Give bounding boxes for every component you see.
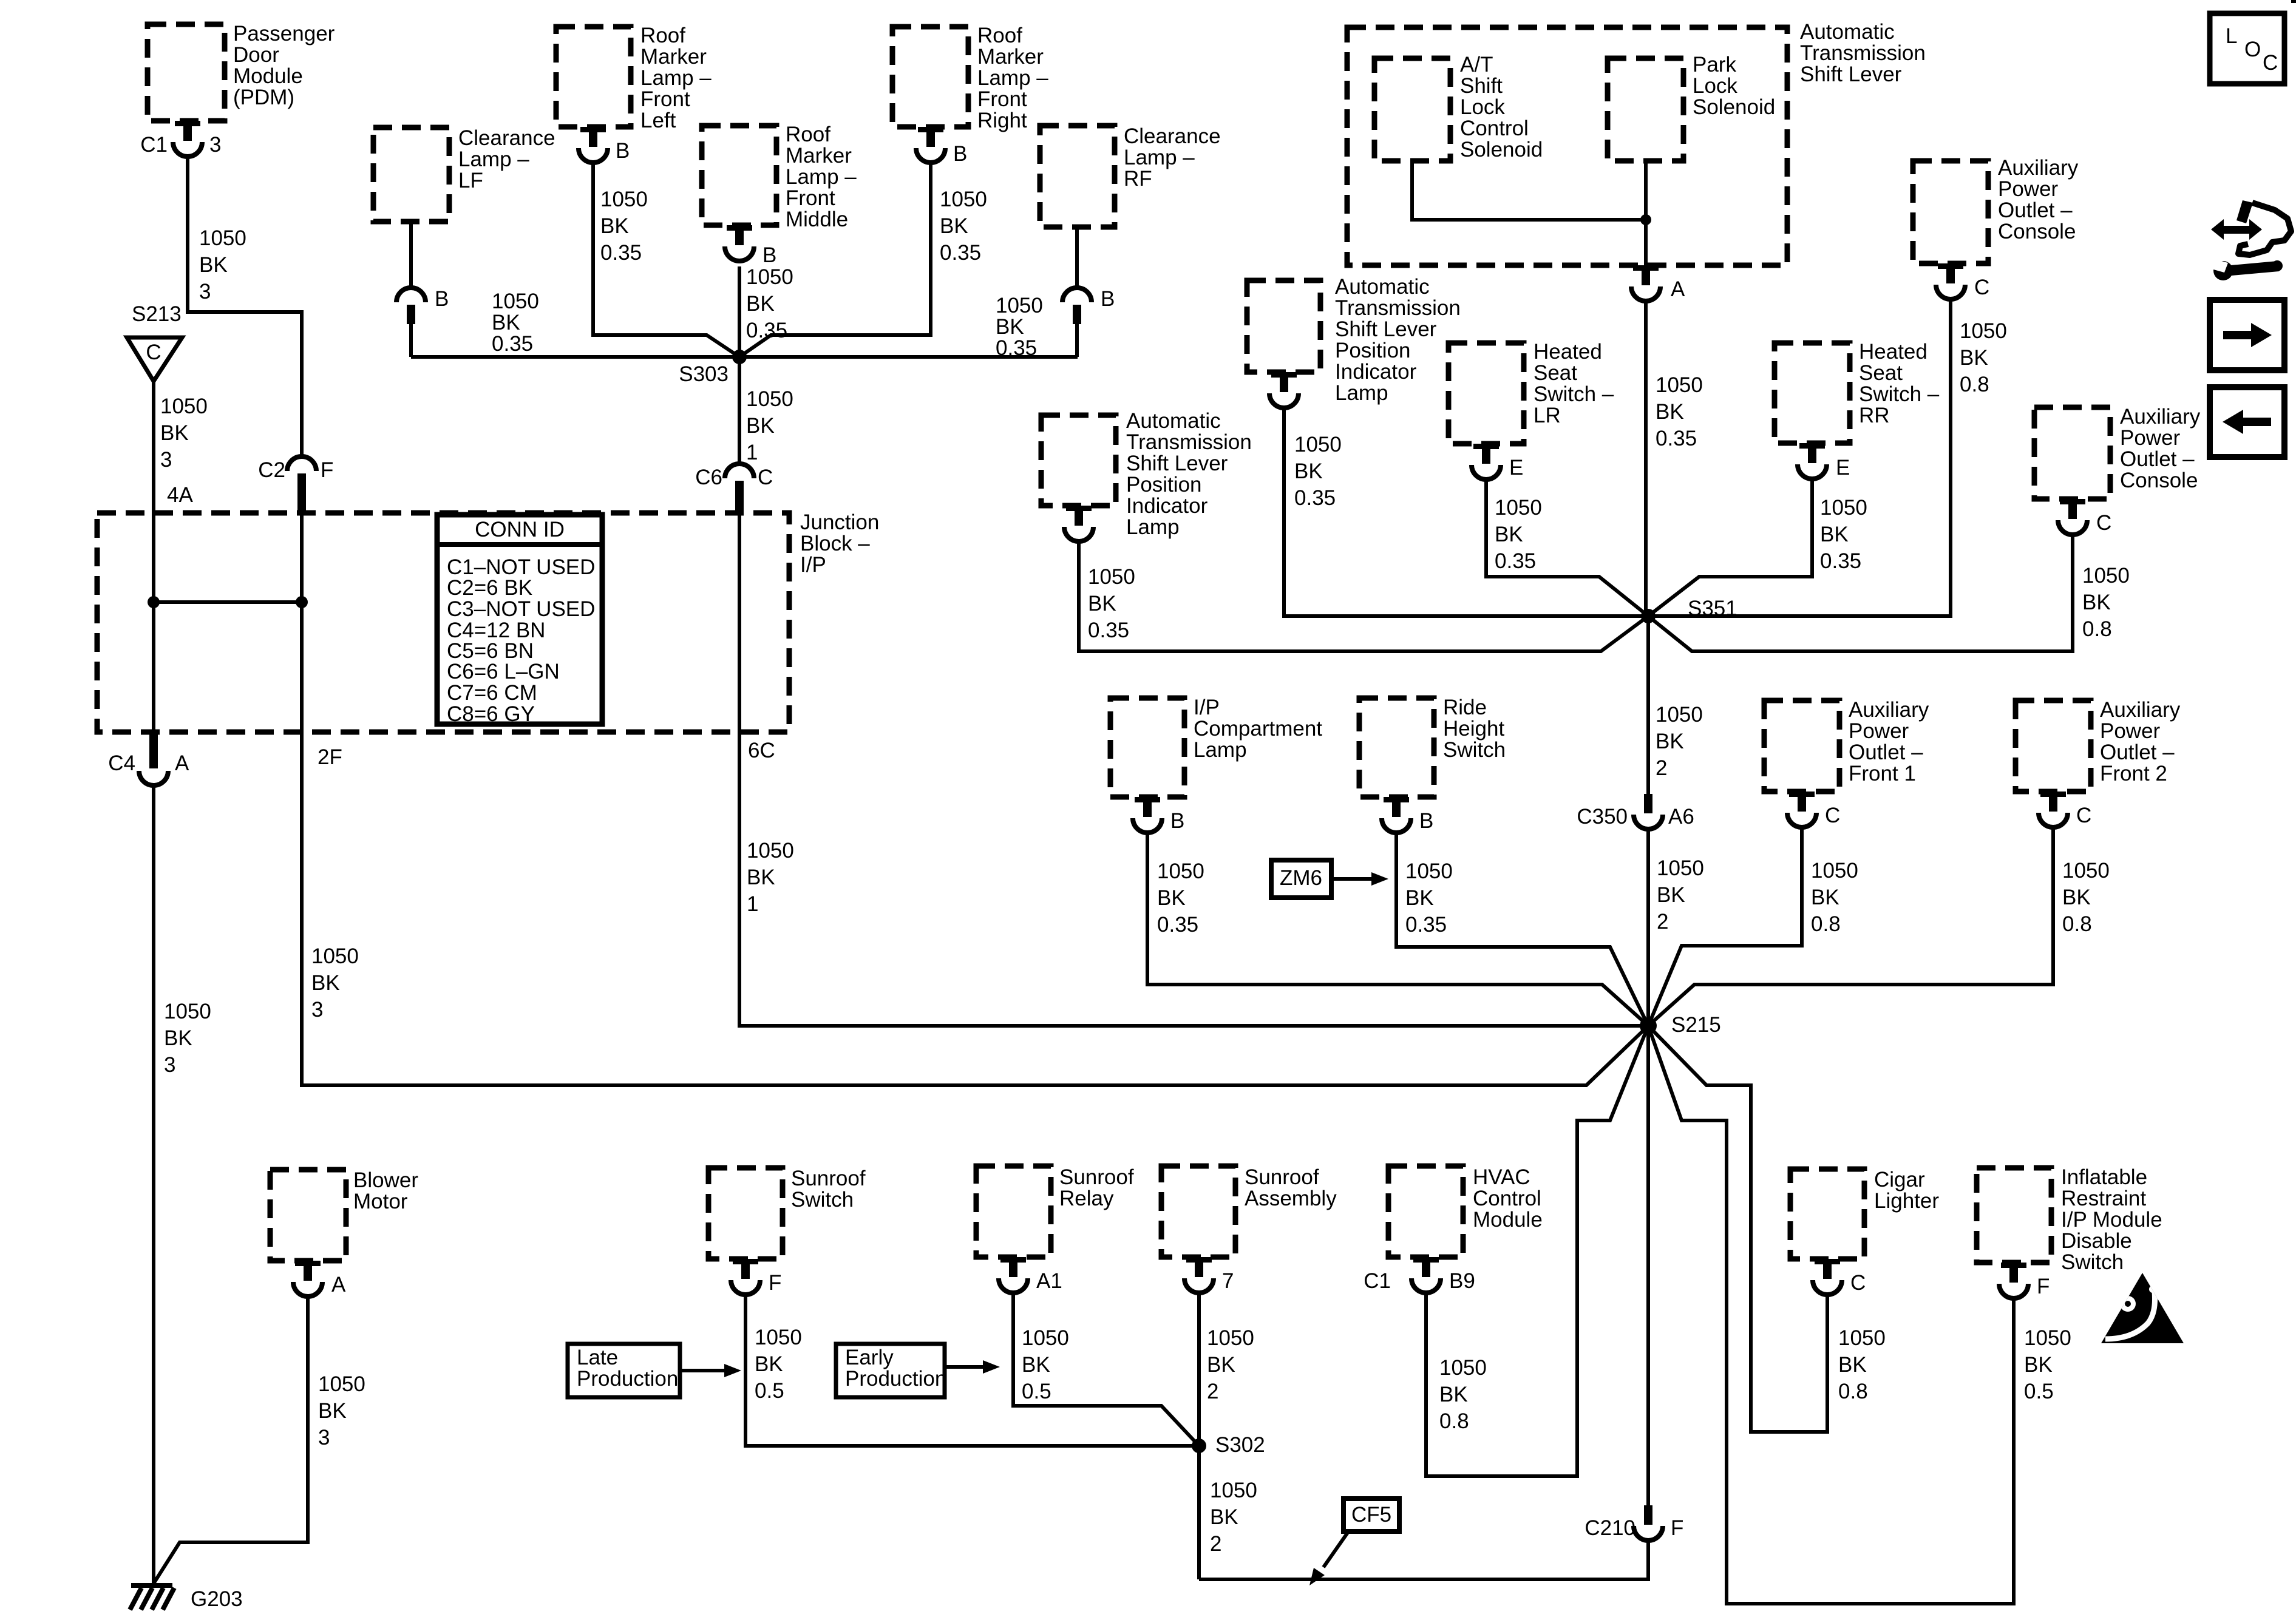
svg-text:1050: 1050 bbox=[2082, 564, 2130, 588]
svg-text:Early: Early bbox=[845, 1346, 894, 1369]
svg-text:Ride: Ride bbox=[1443, 696, 1487, 719]
svg-text:1: 1 bbox=[746, 441, 758, 464]
svg-text:1050: 1050 bbox=[1405, 859, 1453, 883]
svg-text:0.35: 0.35 bbox=[746, 319, 787, 342]
svg-text:0.35: 0.35 bbox=[996, 336, 1037, 360]
svg-text:Auxiliary: Auxiliary bbox=[1849, 698, 1929, 722]
svg-text:Heated: Heated bbox=[1859, 340, 1927, 364]
svg-text:S213: S213 bbox=[132, 302, 182, 326]
svg-text:6C: 6C bbox=[748, 739, 775, 762]
svg-text:ZM6: ZM6 bbox=[1280, 866, 1322, 890]
svg-text:Front: Front bbox=[640, 87, 690, 111]
svg-text:1050: 1050 bbox=[1656, 703, 1703, 727]
svg-text:C: C bbox=[1825, 804, 1840, 827]
svg-text:S215: S215 bbox=[1671, 1013, 1721, 1037]
svg-text:BK: BK bbox=[1657, 883, 1685, 907]
svg-text:Control: Control bbox=[1460, 117, 1529, 140]
svg-text:Automatic: Automatic bbox=[1335, 275, 1430, 299]
svg-text:0.5: 0.5 bbox=[2024, 1380, 2054, 1403]
svg-text:C: C bbox=[758, 466, 773, 489]
svg-text:Seat: Seat bbox=[1859, 361, 1903, 385]
svg-text:0.8: 0.8 bbox=[2062, 912, 2092, 936]
svg-text:1050: 1050 bbox=[164, 1000, 211, 1023]
svg-text:1050: 1050 bbox=[940, 188, 987, 211]
svg-text:3: 3 bbox=[160, 448, 172, 472]
svg-text:BK: BK bbox=[199, 253, 228, 277]
svg-text:Lamp: Lamp bbox=[1194, 738, 1247, 762]
svg-text:B: B bbox=[616, 139, 630, 163]
svg-text:Inflatable: Inflatable bbox=[2061, 1165, 2147, 1189]
svg-text:RR: RR bbox=[1859, 404, 1890, 427]
svg-text:Indicator: Indicator bbox=[1335, 360, 1417, 384]
svg-text:I/P: I/P bbox=[800, 553, 826, 577]
svg-text:BK: BK bbox=[1838, 1353, 1867, 1377]
svg-text:C8=6 GY: C8=6 GY bbox=[447, 702, 535, 726]
svg-text:BK: BK bbox=[1405, 886, 1434, 910]
svg-text:Shift Lever: Shift Lever bbox=[1126, 452, 1228, 475]
svg-text:1050: 1050 bbox=[160, 395, 208, 418]
svg-text:1050: 1050 bbox=[1157, 859, 1204, 883]
svg-text:Solenoid: Solenoid bbox=[1460, 138, 1543, 161]
svg-text:B: B bbox=[763, 243, 776, 267]
svg-text:0.35: 0.35 bbox=[492, 332, 533, 356]
svg-text:Marker: Marker bbox=[640, 45, 707, 69]
svg-text:Heated: Heated bbox=[1533, 340, 1602, 364]
svg-text:Park: Park bbox=[1693, 53, 1736, 76]
svg-text:B9: B9 bbox=[1449, 1269, 1475, 1293]
svg-text:BK: BK bbox=[755, 1352, 783, 1376]
svg-text:Outlet –: Outlet – bbox=[2120, 447, 2195, 471]
svg-text:F: F bbox=[2037, 1275, 2050, 1298]
svg-text:B: B bbox=[1101, 287, 1115, 311]
svg-text:1050: 1050 bbox=[1656, 373, 1703, 397]
svg-text:G203: G203 bbox=[191, 1587, 243, 1611]
svg-text:BK: BK bbox=[311, 971, 340, 995]
svg-text:Auxiliary: Auxiliary bbox=[2120, 405, 2201, 429]
svg-text:1050: 1050 bbox=[746, 265, 793, 289]
svg-text:2: 2 bbox=[1657, 910, 1668, 934]
svg-text:Lamp –: Lamp – bbox=[640, 66, 712, 90]
svg-text:C: C bbox=[146, 341, 161, 364]
svg-text:BK: BK bbox=[1022, 1353, 1050, 1377]
svg-text:I/P: I/P bbox=[1194, 696, 1220, 719]
svg-text:Module: Module bbox=[233, 64, 303, 88]
svg-text:C: C bbox=[1974, 276, 1989, 299]
svg-text:C3–NOT USED: C3–NOT USED bbox=[447, 597, 595, 621]
svg-text:I/P Module: I/P Module bbox=[2061, 1208, 2162, 1232]
svg-text:BK: BK bbox=[940, 214, 968, 238]
svg-text:BK: BK bbox=[160, 421, 189, 445]
svg-text:Lamp –: Lamp – bbox=[786, 165, 857, 189]
svg-text:C: C bbox=[2263, 51, 2278, 75]
svg-text:Middle: Middle bbox=[786, 208, 848, 231]
svg-text:BK: BK bbox=[318, 1399, 347, 1423]
svg-text:Motor: Motor bbox=[353, 1190, 408, 1213]
svg-text:C350: C350 bbox=[1577, 805, 1628, 829]
svg-text:Power: Power bbox=[1998, 177, 2059, 201]
svg-text:Shift: Shift bbox=[1460, 74, 1503, 98]
svg-text:BK: BK bbox=[600, 214, 629, 238]
svg-text:0.35: 0.35 bbox=[940, 241, 981, 265]
svg-text:A: A bbox=[331, 1273, 346, 1297]
svg-text:Production: Production bbox=[845, 1367, 946, 1391]
svg-text:S302: S302 bbox=[1215, 1433, 1265, 1457]
svg-text:Solenoid: Solenoid bbox=[1693, 95, 1775, 119]
svg-text:2F: 2F bbox=[318, 745, 342, 769]
svg-text:0.8: 0.8 bbox=[1838, 1380, 1868, 1403]
svg-text:C7=6 CM: C7=6 CM bbox=[447, 681, 537, 705]
svg-text:0.35: 0.35 bbox=[1405, 913, 1447, 937]
svg-text:Automatic: Automatic bbox=[1126, 409, 1221, 433]
svg-text:S303: S303 bbox=[679, 362, 729, 386]
svg-text:1050: 1050 bbox=[318, 1372, 365, 1396]
svg-text:Lamp –: Lamp – bbox=[977, 66, 1048, 90]
svg-text:C: C bbox=[2076, 804, 2091, 827]
svg-text:C1: C1 bbox=[1364, 1269, 1391, 1293]
svg-text:Junction: Junction bbox=[800, 510, 879, 534]
svg-text:Lamp: Lamp bbox=[1126, 515, 1180, 539]
svg-text:0.35: 0.35 bbox=[1088, 619, 1129, 642]
svg-text:C6=6 L–GN: C6=6 L–GN bbox=[447, 660, 560, 683]
svg-text:Door: Door bbox=[233, 43, 279, 67]
svg-text:BK: BK bbox=[1656, 400, 1684, 424]
svg-text:S351: S351 bbox=[1688, 597, 1737, 620]
svg-text:Height: Height bbox=[1443, 717, 1504, 741]
svg-text:BK: BK bbox=[492, 311, 520, 334]
svg-text:1050: 1050 bbox=[1820, 496, 1867, 520]
svg-text:Production: Production bbox=[577, 1367, 678, 1391]
svg-text:F: F bbox=[1671, 1516, 1683, 1540]
svg-text:Auxiliary: Auxiliary bbox=[1998, 156, 2079, 180]
svg-text:LF: LF bbox=[458, 169, 483, 192]
svg-text:L: L bbox=[2226, 24, 2237, 48]
svg-text:Position: Position bbox=[1335, 339, 1411, 362]
svg-text:O: O bbox=[2244, 38, 2261, 61]
svg-text:1050: 1050 bbox=[996, 294, 1043, 317]
svg-text:BK: BK bbox=[2024, 1353, 2053, 1377]
svg-text:Switch: Switch bbox=[2061, 1250, 2124, 1274]
svg-text:1050: 1050 bbox=[600, 188, 648, 211]
svg-text:Transmission: Transmission bbox=[1335, 296, 1461, 320]
svg-text:0.35: 0.35 bbox=[600, 241, 642, 265]
svg-text:Indicator: Indicator bbox=[1126, 494, 1208, 518]
svg-text:3: 3 bbox=[209, 133, 221, 157]
svg-text:Automatic: Automatic bbox=[1800, 20, 1895, 44]
svg-text:0.8: 0.8 bbox=[2082, 617, 2112, 641]
svg-text:BK: BK bbox=[2082, 591, 2111, 614]
svg-text:B: B bbox=[1170, 809, 1184, 833]
svg-text:A: A bbox=[1671, 277, 1685, 301]
svg-text:1050: 1050 bbox=[746, 387, 793, 411]
svg-text:Late: Late bbox=[577, 1346, 618, 1369]
svg-text:CF5: CF5 bbox=[1351, 1503, 1391, 1527]
svg-text:Front 2: Front 2 bbox=[2100, 762, 2167, 785]
svg-text:1050: 1050 bbox=[2024, 1326, 2071, 1350]
svg-text:Disable: Disable bbox=[2061, 1229, 2132, 1253]
svg-text:1050: 1050 bbox=[1210, 1479, 1257, 1502]
svg-text:BK: BK bbox=[1820, 523, 1849, 546]
svg-text:Shift Lever: Shift Lever bbox=[1800, 63, 1902, 86]
svg-text:A1: A1 bbox=[1036, 1269, 1062, 1293]
svg-text:Front: Front bbox=[786, 186, 835, 210]
svg-text:BK: BK bbox=[747, 866, 775, 889]
svg-text:1050: 1050 bbox=[1811, 859, 1858, 883]
svg-text:Control: Control bbox=[1473, 1187, 1541, 1210]
svg-text:1050: 1050 bbox=[1207, 1326, 1254, 1350]
svg-text:Transmission: Transmission bbox=[1126, 430, 1252, 454]
svg-text:BK: BK bbox=[1656, 730, 1684, 753]
svg-text:Module: Module bbox=[1473, 1208, 1543, 1232]
svg-text:BK: BK bbox=[1960, 346, 1988, 370]
svg-text:Restraint: Restraint bbox=[2061, 1187, 2146, 1210]
svg-text:0.5: 0.5 bbox=[755, 1379, 784, 1403]
svg-text:1050: 1050 bbox=[1294, 433, 1342, 456]
svg-text:Console: Console bbox=[2120, 469, 2198, 492]
svg-text:Passenger: Passenger bbox=[233, 22, 335, 46]
svg-text:Relay: Relay bbox=[1059, 1187, 1114, 1210]
svg-text:Seat: Seat bbox=[1533, 361, 1577, 385]
svg-text:2: 2 bbox=[1207, 1380, 1218, 1403]
svg-text:1050: 1050 bbox=[199, 226, 246, 250]
svg-text:(PDM): (PDM) bbox=[233, 86, 294, 109]
svg-text:Lock: Lock bbox=[1460, 95, 1505, 119]
svg-text:Switch: Switch bbox=[1443, 738, 1506, 762]
svg-text:BK: BK bbox=[996, 315, 1024, 339]
svg-text:Console: Console bbox=[1998, 220, 2076, 243]
svg-text:BK: BK bbox=[164, 1026, 192, 1050]
svg-text:0.35: 0.35 bbox=[1294, 486, 1336, 510]
svg-text:Front: Front bbox=[977, 87, 1027, 111]
svg-text:0.8: 0.8 bbox=[1439, 1409, 1469, 1433]
svg-text:0.8: 0.8 bbox=[1811, 912, 1841, 936]
svg-text:BK: BK bbox=[2062, 886, 2091, 909]
svg-text:Roof: Roof bbox=[786, 123, 830, 146]
svg-text:BK: BK bbox=[1088, 592, 1116, 615]
svg-text:Sunroof: Sunroof bbox=[1059, 1165, 1134, 1189]
svg-text:1050: 1050 bbox=[1439, 1356, 1487, 1380]
svg-text:1050: 1050 bbox=[1022, 1326, 1069, 1350]
svg-text:0.35: 0.35 bbox=[1820, 549, 1861, 573]
svg-text:Roof: Roof bbox=[640, 24, 685, 47]
svg-text:Lock: Lock bbox=[1693, 74, 1737, 98]
svg-text:1050: 1050 bbox=[1495, 496, 1542, 520]
svg-text:Auxiliary: Auxiliary bbox=[2100, 698, 2181, 722]
svg-text:Clearance: Clearance bbox=[1124, 124, 1221, 148]
svg-text:1050: 1050 bbox=[1088, 565, 1135, 589]
svg-text:0.35: 0.35 bbox=[1157, 913, 1198, 937]
svg-text:Marker: Marker bbox=[786, 144, 852, 168]
svg-text:C2=6 BK: C2=6 BK bbox=[447, 576, 532, 600]
svg-text:A: A bbox=[175, 751, 189, 775]
svg-text:C210: C210 bbox=[1584, 1516, 1635, 1540]
svg-text:F: F bbox=[321, 458, 333, 482]
svg-text:E: E bbox=[1509, 456, 1523, 480]
svg-text:Block –: Block – bbox=[800, 532, 870, 555]
svg-text:Power: Power bbox=[1849, 719, 1909, 743]
svg-text:BK: BK bbox=[1157, 886, 1186, 910]
svg-text:Marker: Marker bbox=[977, 45, 1044, 69]
svg-text:0.35: 0.35 bbox=[1495, 549, 1536, 573]
svg-text:BK: BK bbox=[1210, 1505, 1238, 1529]
svg-text:0.35: 0.35 bbox=[1656, 427, 1697, 450]
svg-text:Blower: Blower bbox=[353, 1168, 418, 1192]
svg-text:Power: Power bbox=[2100, 719, 2161, 743]
svg-text:B: B bbox=[1419, 809, 1433, 833]
svg-text:1050: 1050 bbox=[747, 839, 794, 863]
svg-text:3: 3 bbox=[164, 1053, 175, 1077]
svg-text:B: B bbox=[953, 142, 967, 166]
svg-text:Assembly: Assembly bbox=[1245, 1187, 1337, 1210]
svg-text:B: B bbox=[435, 287, 449, 311]
svg-text:Left: Left bbox=[640, 109, 676, 132]
svg-text:2: 2 bbox=[1656, 756, 1667, 780]
svg-text:Shift Lever: Shift Lever bbox=[1335, 317, 1437, 341]
svg-text:Compartment: Compartment bbox=[1194, 717, 1322, 741]
svg-text:Position: Position bbox=[1126, 473, 1202, 497]
svg-text:Clearance: Clearance bbox=[458, 126, 555, 150]
svg-text:Power: Power bbox=[2120, 426, 2181, 450]
svg-text:A6: A6 bbox=[1668, 805, 1694, 829]
svg-text:Front 1: Front 1 bbox=[1849, 762, 1916, 785]
svg-text:C6: C6 bbox=[695, 466, 722, 489]
svg-text:C4: C4 bbox=[108, 751, 135, 775]
svg-text:E: E bbox=[1836, 456, 1850, 480]
svg-text:1050: 1050 bbox=[1960, 319, 2007, 343]
svg-text:Right: Right bbox=[977, 109, 1027, 132]
svg-text:1050: 1050 bbox=[1838, 1326, 1886, 1350]
svg-text:F: F bbox=[769, 1271, 781, 1295]
svg-text:Switch –: Switch – bbox=[1533, 382, 1614, 406]
svg-text:C: C bbox=[1850, 1271, 1866, 1295]
svg-text:BK: BK bbox=[1439, 1383, 1468, 1406]
svg-text:1050: 1050 bbox=[311, 944, 359, 968]
svg-text:CONN ID: CONN ID bbox=[475, 518, 565, 541]
svg-text:LR: LR bbox=[1533, 404, 1561, 427]
svg-text:A/T: A/T bbox=[1460, 53, 1493, 76]
svg-text:Outlet –: Outlet – bbox=[1849, 741, 1923, 764]
svg-text:Lamp –: Lamp – bbox=[458, 147, 529, 171]
svg-text:BK: BK bbox=[1811, 886, 1839, 909]
svg-text:Transmission: Transmission bbox=[1800, 41, 1926, 65]
svg-text:3: 3 bbox=[311, 998, 323, 1022]
svg-text:4A: 4A bbox=[167, 483, 193, 507]
svg-text:BK: BK bbox=[746, 414, 775, 438]
svg-text:BK: BK bbox=[1495, 523, 1523, 546]
svg-text:C2: C2 bbox=[258, 458, 285, 482]
svg-text:Lamp: Lamp bbox=[1335, 381, 1388, 405]
svg-text:C: C bbox=[2096, 511, 2111, 535]
svg-text:7: 7 bbox=[1222, 1269, 1234, 1293]
svg-text:3: 3 bbox=[318, 1426, 330, 1449]
svg-text:Cigar: Cigar bbox=[1874, 1168, 1925, 1192]
svg-text:1050: 1050 bbox=[2062, 859, 2110, 883]
svg-text:0.5: 0.5 bbox=[1022, 1380, 1051, 1403]
svg-text:HVAC: HVAC bbox=[1473, 1165, 1530, 1189]
svg-text:Sunroof: Sunroof bbox=[1245, 1165, 1319, 1189]
svg-text:BK: BK bbox=[1294, 459, 1323, 483]
svg-text:Roof: Roof bbox=[977, 24, 1022, 47]
svg-text:Outlet –: Outlet – bbox=[2100, 741, 2175, 764]
svg-text:3: 3 bbox=[199, 280, 211, 303]
svg-text:2: 2 bbox=[1210, 1532, 1221, 1556]
svg-text:BK: BK bbox=[746, 292, 775, 316]
svg-text:Lamp –: Lamp – bbox=[1124, 146, 1195, 169]
svg-text:1050: 1050 bbox=[1657, 856, 1704, 880]
svg-text:1: 1 bbox=[747, 892, 758, 916]
svg-text:BK: BK bbox=[1207, 1353, 1235, 1377]
svg-text:Switch: Switch bbox=[791, 1188, 854, 1212]
svg-text:Lighter: Lighter bbox=[1874, 1189, 1939, 1213]
svg-text:RF: RF bbox=[1124, 167, 1152, 191]
svg-text:Sunroof: Sunroof bbox=[791, 1167, 866, 1190]
svg-text:C1: C1 bbox=[140, 133, 168, 157]
svg-text:1050: 1050 bbox=[492, 290, 539, 313]
svg-text:Switch –: Switch – bbox=[1859, 382, 1940, 406]
svg-text:1050: 1050 bbox=[755, 1326, 802, 1349]
svg-text:Outlet –: Outlet – bbox=[1998, 198, 2073, 222]
svg-text:0.8: 0.8 bbox=[1960, 373, 1989, 396]
